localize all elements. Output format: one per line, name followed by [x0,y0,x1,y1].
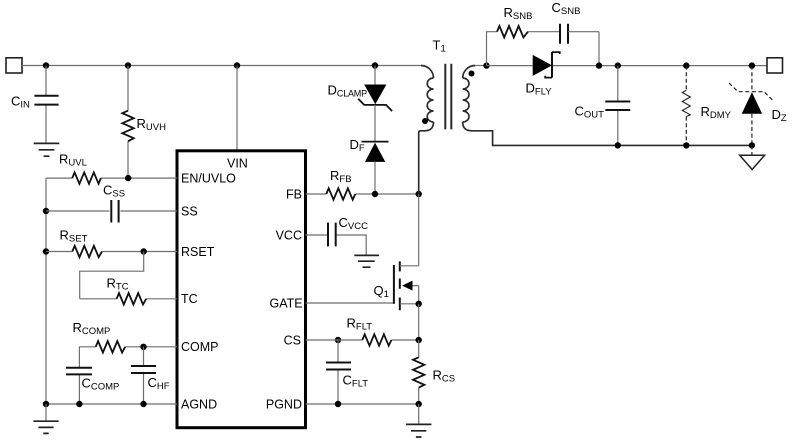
svg-text:DFLY: DFLY [526,81,553,98]
op IC U1 box [177,151,306,428]
node PGND/RCS [416,401,422,407]
resistor RFB [306,168,419,200]
wire PGND [306,403,419,405]
svg-text:RSET: RSET [181,245,215,259]
svg-text:CHF: CHF [148,375,170,392]
transformer T1 core [445,64,451,130]
ground (below CIN) [34,143,60,156]
resistor RFLT [306,316,419,346]
node RUVH/EN junction [125,175,131,181]
capacitor CHF [131,347,170,404]
svg-text:RDMY: RDMY [701,104,732,121]
svg-text:CSS: CSS [103,183,125,200]
wire between DCLAMP and DF [374,105,376,142]
svg-text:CSNB: CSNB [552,0,581,17]
svg-text:EN/UVLO: EN/UVLO [181,172,236,186]
ground (AGND) [33,421,58,433]
transformer T1 primary winding [419,38,446,195]
diode DF [350,137,389,162]
resistor RTC [80,276,177,305]
node RUVH top junction [125,62,131,68]
wire GATE [306,302,394,304]
capacitor CFLT [326,340,368,404]
wire output top line [487,65,768,67]
capacitor CVCC [306,215,369,255]
node FB/clamp junction [372,191,378,197]
svg-text:RCOMP: RCOMP [73,320,111,337]
node COMP/CHF junction [140,344,146,350]
node RDMY bottom junction [683,142,689,148]
input terminal [6,58,22,73]
svg-text:DF: DF [350,137,365,154]
diode DCLAMP (TVS) [328,83,393,112]
node SS left junction [43,208,49,214]
resistor RUVH [122,66,166,179]
transformer T1 secondary winding [463,66,752,146]
node RSET left junction [43,248,49,254]
resistor RSET [46,228,177,258]
resistor RSNB [487,5,561,66]
wire DZ to chassis ground [751,145,753,155]
node DZ bottom junction [749,142,755,148]
node clamp top junction [372,62,378,68]
node snubber left junction [483,62,489,68]
svg-text:FB: FB [286,187,302,201]
capacitor CSS [46,183,177,223]
capacitor CSNB [552,0,600,66]
wire TC loop [80,252,144,299]
svg-text:SS: SS [181,204,198,218]
ground (chassis, open triangle) [740,155,765,169]
wire clamp chain top [374,66,376,85]
node input/CIN junction [43,62,49,68]
node COUT top junction [615,62,621,68]
resistor RCS [413,340,455,404]
wire PGND ground stem [418,404,420,424]
node snubber right junction [596,62,602,68]
svg-text:COMP: COMP [181,340,219,354]
resistor RUVL [46,152,177,184]
resistor RCOMP [73,320,178,353]
svg-text:RFB: RFB [330,168,352,185]
node CS/CFLT junction [335,337,341,343]
capacitor COUT [575,66,631,146]
svg-text:RSNB: RSNB [504,5,533,22]
svg-text:CIN: CIN [11,94,30,111]
wire Q1 drain to switch node [418,194,420,266]
node DZ top junction [749,62,755,68]
svg-text:CVCC: CVCC [339,215,369,232]
wire DF anode to FB line [374,162,376,194]
svg-text:DZ: DZ [772,107,787,124]
ground (PGND) [406,424,431,437]
svg-text:AGND: AGND [181,397,217,411]
svg-text:PGND: PGND [266,397,302,411]
svg-text:RUVL: RUVL [59,152,87,169]
transistor Q1 [374,261,419,310]
output terminal [767,58,783,73]
svg-text:CFLT: CFLT [343,373,369,390]
svg-text:VCC: VCC [276,228,302,242]
svg-text:T1: T1 [433,38,446,55]
svg-text:RTC: RTC [107,276,129,293]
capacitor CCOMP [66,347,119,404]
node secondary phase dot [469,71,475,77]
svg-text:RUVH: RUVH [137,116,167,133]
wire AGND ground stem [45,404,47,421]
node primary phase dot [422,118,428,124]
svg-text:DCLAMP: DCLAMP [328,83,368,99]
node FB/switch-node junction [416,191,422,197]
diode DZ (zener, dashed) [729,66,787,146]
node VIN rail junction [234,62,240,68]
node AGND/CHF [140,401,146,407]
resistor RDMY (dashed) [682,66,731,146]
node COUT bottom junction [615,142,621,148]
svg-text:TC: TC [181,292,198,306]
node Q1 source [416,301,422,307]
wire AGND [46,403,177,405]
wire VIN drop [236,66,238,151]
node AGND/CCOMP [76,401,82,407]
svg-text:RSET: RSET [60,228,88,245]
wire top VIN rail [22,65,421,67]
node RSET/TC loop junction [141,248,147,254]
node RDMY top junction [683,62,689,68]
diode DFLY [526,52,560,97]
svg-text:CS: CS [284,333,301,347]
wire left rail [45,178,47,404]
wire secondary top lead [475,65,486,67]
ground (CVCC) [354,255,379,267]
node AGND left [43,401,49,407]
svg-text:Q1: Q1 [374,283,389,300]
svg-text:RCS: RCS [433,368,456,385]
svg-text:CCOMP: CCOMP [82,376,120,393]
wire Q1 source down [418,304,420,340]
svg-text:RFLT: RFLT [347,316,373,333]
node PGND/CFLT [335,401,341,407]
svg-text:VIN: VIN [227,156,248,170]
svg-text:COUT: COUT [575,104,605,121]
svg-text:GATE: GATE [269,296,302,310]
capacitor CIN [11,66,59,144]
node CS/RCS junction [416,337,422,343]
